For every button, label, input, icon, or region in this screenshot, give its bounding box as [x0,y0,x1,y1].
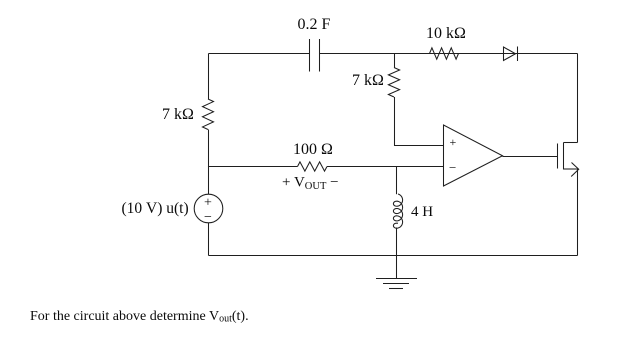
wire bottom rail to ground [396,256,398,279]
resistor R2 10 kOhm [430,48,459,59]
svg-text:−: − [449,160,456,175]
svg-text:7 kΩ: 7 kΩ [162,106,194,123]
svg-text:4 H: 4 H [411,204,433,220]
svg-text:(10 V) u(t): (10 V) u(t) [122,200,189,217]
svg-text:0.2 F: 0.2 F [298,16,331,33]
svg-text:+ VOUT −: + VOUT − [282,175,339,193]
caption text [30,309,249,325]
node A junction left rail / 100 ohm rail [208,166,210,167]
wire R3 bottom to op-amp plus input [395,97,444,146]
wire bottom rail [209,255,578,257]
wire source to bottom rail [208,223,210,256]
resistor R4 100 Ohm rail to op-amp minus input [209,166,298,168]
svg-text:7 kΩ: 7 kΩ [352,72,384,89]
op-amp U1 [444,125,503,186]
wire op-amp output to transistor gate [503,156,558,158]
inductor L1 4 H [393,194,402,228]
wire left vertical rail [208,54,210,100]
ground [376,278,417,280]
wire top rail left of capacitor [209,53,310,55]
svg-text:10 kΩ: 10 kΩ [426,25,466,42]
svg-text:+: + [450,135,457,149]
wire top rail right of capacitor [320,53,578,55]
svg-text:100 Ω: 100 Ω [293,141,333,158]
transistor Q1 [557,144,559,169]
resistor R1 7 kOhm left [203,99,214,130]
wire transistor source to bottom rail [577,169,579,256]
wire top right corner down [577,54,579,143]
node B junction 100 ohm rail / inductor [396,167,398,195]
svg-text:+: + [204,196,212,211]
diode D1 [504,47,516,61]
voltage source V1 (10 V) u(t) [194,194,223,223]
resistor R3 7 kOhm vertical [394,54,396,68]
wire left rail below R1 to source [208,130,210,195]
capacitor C1 0.2 F [309,39,311,72]
